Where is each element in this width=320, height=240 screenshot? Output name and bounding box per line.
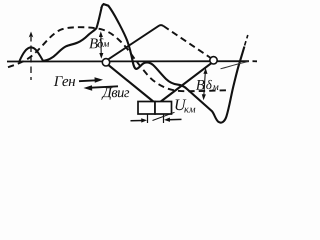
- curve: small solid hump (left): [20, 47, 44, 61]
- wire: leader line to U_km label: [153, 112, 175, 120]
- label B_dm (left): [89, 39, 98, 49]
- brush: right commutator segment rectangle: [155, 102, 172, 115]
- dimension: U_km right arrow: [169, 118, 182, 120]
- label Dvig: [102, 88, 130, 100]
- curve: solid field curve (S-rise, tall apex, steep descent, crest, dip, deep U, right rise): [43, 4, 244, 123]
- curve: dashed resultant-field curve (big arc, left to bottom): [8, 27, 227, 91]
- wire: horizontal axis: [7, 60, 257, 62]
- label U_km: [176, 100, 187, 111]
- label B_dm (right): [196, 80, 205, 90]
- arrow: generator direction (right): [79, 79, 96, 82]
- dimension: B_dm right vertical arrow: [202, 68, 208, 100]
- dimension: B_dm left vertical arrow: [99, 31, 104, 59]
- wire: commutating-pole tent, dashed right side: [163, 26, 210, 58]
- curve: dashed continuation top right: [245, 35, 248, 46]
- wire: brush zone line from right circle to brush: [160, 63, 212, 102]
- dimension: U_km left arrow: [131, 120, 143, 122]
- node B: circle on axis (right): [210, 57, 217, 64]
- tiny barb at apex: [101, 4, 104, 8]
- node A: circle on axis (left): [102, 59, 109, 66]
- label Gen: [54, 76, 75, 86]
- wire: extension ticks below brush: [148, 115, 164, 124]
- arrow: motor direction (left): [91, 86, 118, 87]
- wire: commutating-pole tent, solid left side: [108, 25, 163, 59]
- brush: left commutator segment rectangle: [138, 102, 155, 115]
- wire: brush zone line from left circle to brush: [109, 65, 155, 102]
- wire: thin approach line below axis (right): [221, 62, 249, 69]
- node: dash-dot neutral line with arrow (left, x=31): [29, 32, 34, 81]
